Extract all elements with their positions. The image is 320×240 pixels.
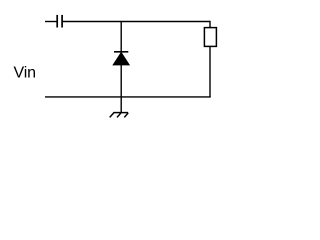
diode D1	[113, 52, 129, 65]
node junction diode-top	[120, 22, 122, 52]
capacitor C1	[45, 15, 62, 28]
wire resistor to bottom rail	[209, 46, 211, 97]
wire right drop to resistor	[209, 21, 211, 28]
resistor R1	[204, 28, 216, 47]
svg-text:Vin: Vin	[14, 65, 36, 82]
ground	[110, 113, 129, 118]
wire diode anode down	[120, 65, 122, 113]
wire bottom rail	[45, 96, 211, 98]
wire top rail	[62, 21, 210, 23]
